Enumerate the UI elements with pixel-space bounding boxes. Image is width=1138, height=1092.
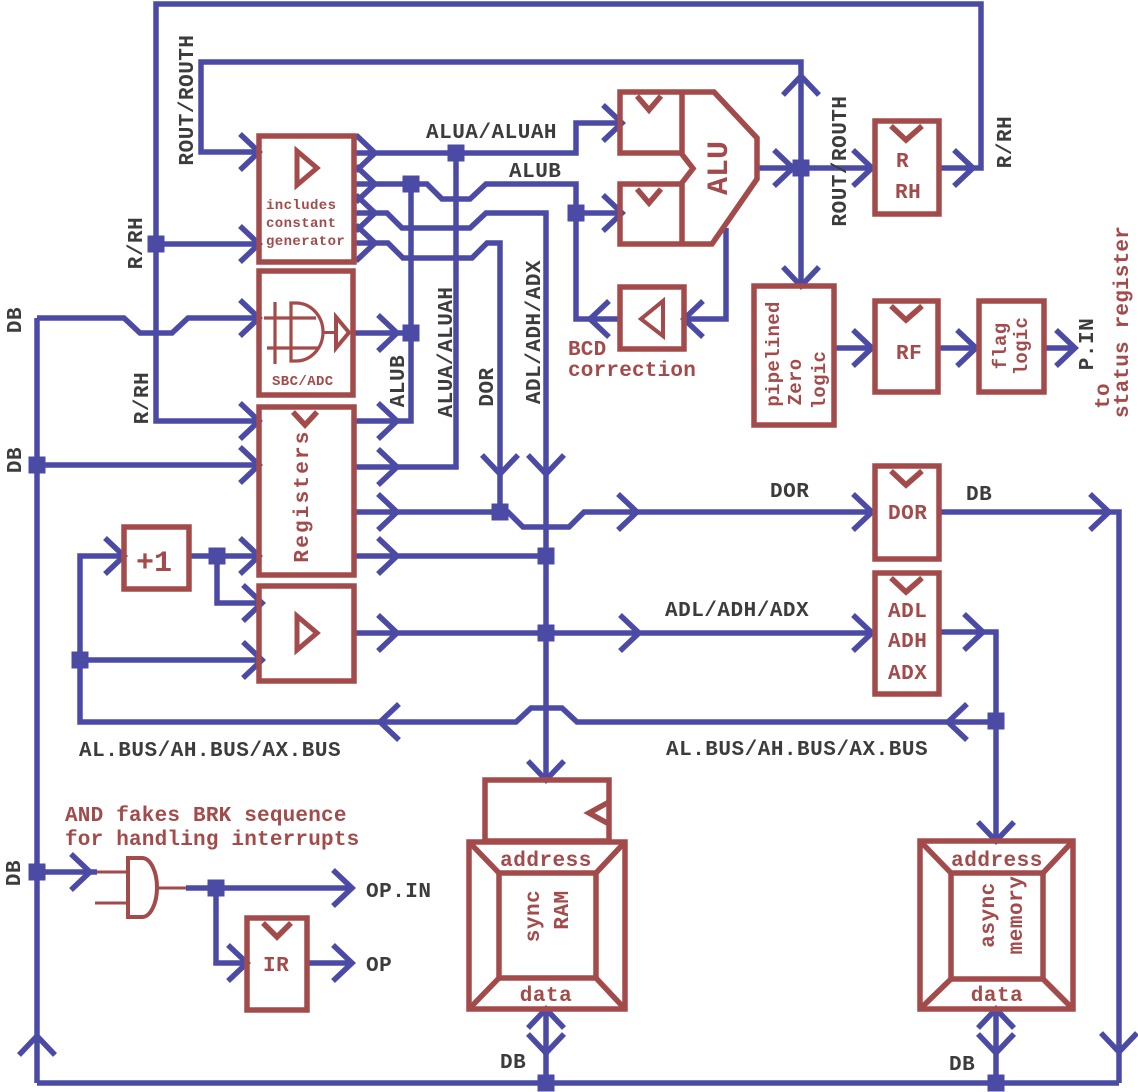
svg-text:P.IN: P.IN (1077, 318, 1100, 370)
ALU B input chevron (637, 189, 661, 203)
ALU U4 body outline (620, 92, 757, 244)
arrow P.IN (1056, 330, 1075, 366)
arrow AL.BUS mid left (380, 704, 399, 740)
svg-text:ROUT/ROUTH: ROUT/ROUTH (830, 95, 853, 226)
arrow Registers out4 mid (378, 538, 397, 574)
wire DB to Registers in2 (37, 462, 259, 468)
buffer U1 triangle symbol (297, 151, 317, 185)
arrow into IR (228, 945, 247, 981)
ADL clock chevron (891, 578, 922, 592)
arrow ADL reg out mid (964, 614, 983, 650)
svg-text:BCD: BCD (568, 339, 606, 362)
svg-text:generator: generator (266, 234, 345, 250)
svg-text:includes: includes (266, 198, 336, 214)
wire DB right vertical (from DOR register output) (939, 512, 1119, 1083)
node ALUB junction top (403, 176, 420, 193)
wire AL.BUS/AH.BUS/AX.BUS (bump over ADL vertical) to left side (80, 660, 996, 722)
wire R/RH feedback loop (R RH output, top bus, down left side) (156, 4, 981, 244)
svg-text:ROUT/ROUTH: ROUT/ROUTH (177, 34, 200, 165)
svg-text:correction: correction (568, 360, 696, 383)
node DB junction lower-left (29, 864, 46, 881)
arrow into pipelined Zero logic (783, 267, 819, 286)
node AL.BUS junction right (988, 713, 1005, 730)
svg-text:R/RH: R/RH (995, 116, 1018, 168)
svg-text:Zero: Zero (785, 359, 807, 406)
svg-text:DB: DB (949, 1054, 975, 1077)
memory sync RAM address extension box (485, 780, 609, 841)
arrow SBC out mid (378, 315, 397, 351)
wire ALUA/ALUAH vertical from Registers out2 (354, 153, 456, 467)
sync RAM perspective diagonals (469, 842, 625, 1009)
arrow includes out3 mid (356, 195, 375, 231)
node AL.BUS junction left (72, 652, 89, 669)
arrow into flag logic (957, 330, 976, 366)
wire +1 output to Registers in3 (189, 553, 259, 559)
register file 'Registers' box (259, 407, 354, 575)
wire ADL register output down to async memory address (939, 632, 996, 841)
wire AL.BUS up to +1 input (80, 556, 124, 660)
arrow Registers out1 mid (378, 403, 397, 439)
svg-text:ADL/ADH/ADX: ADL/ADH/ADX (524, 260, 547, 404)
arrow into Registers in1 (240, 403, 259, 439)
svg-text:data: data (520, 985, 572, 1008)
DOR clock chevron (891, 471, 922, 485)
svg-text:ALUA/ALUAH: ALUA/ALUAH (426, 122, 557, 145)
arrow sync RAM data up (528, 1009, 564, 1028)
RF clock chevron (891, 306, 922, 320)
wire ROUT/ROUTH loop (from ALU output junction up and left to includes input 1) (201, 62, 801, 168)
arrow OP.IN (333, 870, 352, 906)
arrow DOR bus mid (618, 494, 637, 530)
wire buffer output / ADL-ADH-ADX bus to ADL register (354, 630, 872, 636)
arrow buffer out mid (378, 615, 397, 651)
svg-text:DB: DB (5, 307, 28, 333)
svg-text:async: async (978, 882, 1001, 948)
wire SBC/ADC output to ALUB vertical (353, 330, 411, 336)
logic block U2 SBC/ADC box (259, 271, 353, 395)
arrow BCD out mid (590, 301, 609, 337)
wire flag logic to P.IN (1044, 345, 1075, 351)
BCD correction triangle symbol (left pointing) (641, 301, 663, 336)
wire async memory data port to DB bus (993, 1009, 999, 1083)
arrow into ALU B (603, 195, 622, 231)
arrow into buffer in1 (243, 585, 262, 621)
svg-text:for handling interrupts: for handling interrupts (65, 829, 359, 852)
register R/RH box (875, 121, 939, 214)
arrow DB left up mid (19, 1036, 55, 1055)
SBC/ADC grid line vertical 1 (273, 302, 276, 364)
wire DOR bus to DOR register (hop under ADL vertical) (500, 512, 872, 527)
R RH clock chevron (891, 126, 922, 140)
svg-text:data: data (971, 985, 1023, 1008)
node ROUT/ROUTH junction (793, 160, 810, 177)
svg-text:R/RH: R/RH (132, 372, 155, 424)
node ALUB junction at ALU (568, 205, 585, 222)
wire R/RH to includes in2 (156, 241, 259, 247)
arrow ROUT/ROUTH up mid (783, 76, 819, 95)
wire ALU output to R RH register (757, 165, 872, 171)
svg-text:RH: RH (895, 182, 921, 205)
wire R/RH down to Registers in1 (156, 244, 259, 421)
wire includes out2 (ALUB) with dip under ALUA vertical (354, 184, 576, 213)
async memory inner box (951, 873, 1043, 979)
wire includes out3 to ADL/ADH/ADX vertical (dip under verticals) (354, 213, 546, 780)
arrow DB right down mid (1101, 1033, 1137, 1052)
register RF box (875, 301, 938, 392)
svg-text:flag: flag (990, 323, 1012, 370)
svg-text:SBC/ADC: SBC/ADC (272, 374, 334, 390)
svg-text:DB: DB (966, 484, 992, 507)
register DOR box (875, 466, 939, 559)
arrow Registers out3 mid (378, 494, 397, 530)
ALU input divider lines (679, 92, 685, 244)
arrow into ALU A (603, 105, 622, 141)
svg-text:constant: constant (266, 216, 336, 232)
wire pipelined Zero logic to RF (834, 345, 872, 351)
wire Registers out4 to ADL vertical (354, 553, 546, 559)
wire ALU output tap down to BCD correction input (684, 228, 726, 319)
svg-text:status register: status register (1112, 226, 1135, 418)
arrow DOR vertical down mid (482, 455, 518, 474)
arrow into includes in1 (240, 134, 259, 170)
arrow into buffer in2 (243, 642, 262, 678)
wire IR output to OP (307, 960, 352, 966)
svg-text:sync: sync (523, 890, 546, 942)
arrow into R RH (853, 150, 872, 186)
node R/RH junction left (148, 236, 165, 253)
svg-text:address: address (500, 850, 592, 873)
svg-text:R: R (896, 151, 909, 174)
svg-text:logic: logic (809, 351, 831, 410)
node DB bus junction at async memory (988, 1075, 1005, 1092)
wire ALUB into ALU B input (576, 210, 622, 216)
SBC/ADC output connector (323, 331, 336, 334)
memory sync RAM outer box (469, 842, 625, 1009)
buffer U1 'includes constant generator' box (259, 136, 354, 262)
wire includes out4 to DOR vertical (dip under verticals) (354, 243, 500, 512)
svg-text:ALUA/ALUAH: ALUA/ALUAH (436, 286, 459, 417)
arrow into sync RAM address (528, 761, 564, 780)
buffer U3 triangle symbol (297, 616, 317, 650)
svg-text:DOR: DOR (770, 481, 809, 504)
arrow OP (333, 945, 352, 981)
svg-text:IR: IR (263, 955, 289, 978)
svg-text:Registers: Registers (292, 429, 315, 562)
AND gate U8 shape (128, 858, 157, 917)
svg-text:RAM: RAM (552, 890, 575, 929)
wire sync RAM data port to DB bus (543, 1008, 549, 1083)
arrow into RF (853, 330, 872, 366)
IR clock chevron (263, 923, 291, 937)
arrow ADL bus mid (620, 615, 639, 651)
register ADL ADH ADX box (875, 573, 939, 694)
wire AND gate output to OP.IN (186, 885, 352, 891)
wire includes out1 to ALU A input (354, 123, 622, 153)
arrow into ADL register (853, 615, 872, 651)
wire +1 output down to buffer in1 (217, 556, 262, 603)
wire RF to flag logic (938, 345, 976, 351)
arrow includes out4 mid (356, 225, 375, 261)
node ALUA/ALUAH junction (448, 145, 465, 162)
arrow async memory data up (978, 1009, 1014, 1028)
arrow into +1 (105, 538, 124, 574)
arrow DB to AND mid (71, 854, 90, 890)
node DB bus junction at sync RAM (538, 1075, 555, 1092)
svg-text:RF: RF (896, 343, 922, 366)
wire ROUT/ROUTH down to pipelined Zero logic (798, 168, 804, 286)
svg-text:address: address (951, 850, 1043, 873)
svg-text:ADL/ADH/ADX: ADL/ADH/ADX (665, 600, 809, 623)
wire ALUB vertical from Registers out1 (354, 184, 411, 421)
AND gate input stub 1 (97, 871, 128, 874)
arrow R/RH out mid (954, 150, 973, 186)
arrow into Registers in3 (240, 538, 259, 574)
Registers clock chevron (293, 412, 317, 425)
arrow into SBC/ADC (240, 300, 259, 336)
memory async outer box (920, 841, 1073, 1009)
logic block U7 flag logic box (979, 301, 1044, 392)
incrementer '+1' box (124, 527, 189, 589)
wire DB to SBC/ADC (hop under R/RH) (37, 318, 259, 333)
svg-text:logic: logic (1011, 317, 1033, 376)
arrow ALU out mid (774, 150, 793, 186)
svg-text:DOR: DOR (477, 367, 500, 406)
svg-text:DB: DB (4, 860, 27, 886)
svg-text:ADX: ADX (888, 663, 927, 686)
wire DB to AND gate (37, 869, 97, 875)
logic block U6 pipelined Zero logic box (754, 286, 834, 425)
svg-text:ADL: ADL (888, 601, 927, 624)
arrow DB right mid (1090, 494, 1109, 530)
arrow Registers out2 mid (378, 449, 397, 485)
sync RAM inner box (499, 873, 596, 978)
node DOR junction (492, 504, 509, 521)
AND gate output stub (157, 887, 186, 890)
wire Registers out3 (DOR) to junction (354, 509, 500, 515)
wire AND output down to IR (216, 888, 247, 963)
node ADL junction at Registers out4 (538, 548, 555, 565)
svg-text:ALUB: ALUB (509, 161, 561, 184)
register IR box (247, 918, 307, 1010)
arrow AL.BUS mid right (948, 704, 967, 740)
arrow into DOR register (853, 494, 872, 530)
arrow includes out2 mid (356, 166, 375, 202)
arrow async memory data down (978, 1034, 1014, 1053)
wire AL.BUS to buffer in2 (80, 657, 262, 663)
wire DB bottom bus (37, 1080, 1119, 1086)
svg-text:OP: OP (366, 955, 392, 978)
svg-text:ADH: ADH (888, 631, 927, 654)
svg-text:DB: DB (500, 1052, 526, 1075)
svg-text:DOR: DOR (888, 503, 927, 526)
wire BCD correction output up to ALUB junction (576, 213, 620, 319)
buffer U5 BCD correction box (620, 287, 684, 349)
SBC/ADC AND-gate symbol (291, 303, 323, 361)
AND gate input stub 2 (95, 902, 128, 905)
async memory perspective diagonals (920, 841, 1073, 1009)
SBC/ADC buffer triangle (336, 317, 349, 348)
svg-text:pipelined: pipelined (763, 301, 785, 406)
node ADL junction at buffer out (538, 625, 555, 642)
arrow into BCD correction (684, 301, 703, 337)
sync RAM extension chevron notch (589, 802, 609, 824)
arrow into async memory address (978, 822, 1014, 841)
SBC/ADC grid line horizontal 1 (264, 316, 316, 319)
svg-text:AL.BUS/AH.BUS/AX.BUS: AL.BUS/AH.BUS/AX.BUS (79, 740, 341, 763)
svg-text:OP.IN: OP.IN (366, 881, 432, 904)
svg-text:memory: memory (1006, 876, 1029, 955)
svg-text:DB: DB (5, 447, 28, 473)
buffer U3 (address buffer) box (259, 586, 354, 681)
node +1 output junction (209, 548, 226, 565)
arrow includes out1 mid (356, 135, 375, 171)
svg-text:AND fakes BRK sequence: AND fakes BRK sequence (65, 805, 347, 828)
wire DB left vertical bus (34, 318, 40, 1083)
svg-text:+1: +1 (136, 547, 172, 581)
svg-text:ALUB: ALUB (388, 355, 411, 407)
svg-text:AL.BUS/AH.BUS/AX.BUS: AL.BUS/AH.BUS/AX.BUS (666, 739, 928, 762)
arrow into Registers in2 (240, 447, 259, 483)
arrow into includes in2 (240, 226, 259, 262)
svg-text:R/RH: R/RH (126, 217, 149, 269)
node DB junction mid-left (29, 457, 46, 474)
arrow ADL vertical down mid (528, 455, 564, 474)
node SBC output junction (403, 325, 420, 342)
arrow sync RAM data down (528, 1034, 564, 1053)
SBC/ADC grid line horizontal 2 (267, 346, 319, 349)
node AND output junction (208, 880, 225, 897)
svg-text:ALU: ALU (703, 141, 737, 195)
ALU A input chevron (637, 96, 661, 110)
